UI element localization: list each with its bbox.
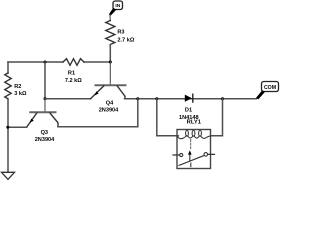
svg-text:2.7 kΩ: 2.7 kΩ bbox=[117, 37, 134, 43]
svg-text:7.2 kΩ: 7.2 kΩ bbox=[65, 78, 82, 84]
resistor R1 bbox=[63, 59, 84, 84]
terminal IN bbox=[109, 1, 123, 16]
relay actuator arrow bbox=[190, 154, 191, 167]
svg-text:Q4: Q4 bbox=[106, 100, 114, 106]
wire R3 to node bbox=[109, 45, 111, 63]
wire left rail bbox=[7, 62, 9, 172]
terminal COM bbox=[256, 82, 279, 100]
node F (relay coil right) bbox=[221, 97, 224, 100]
svg-text:R1: R1 bbox=[68, 70, 75, 76]
svg-text:Q3: Q3 bbox=[41, 130, 48, 136]
wire top rail bbox=[8, 61, 110, 63]
wire node A down bbox=[44, 62, 46, 99]
wire coil right drop bbox=[211, 99, 223, 136]
svg-text:RLY1: RLY1 bbox=[187, 119, 202, 125]
diode D1 bbox=[179, 94, 199, 121]
transistor Q3 bbox=[27, 99, 58, 143]
wire Q3 emitter to rail bbox=[8, 126, 27, 128]
node B (R3 bottom / Q4 base) bbox=[109, 61, 112, 64]
resistor R2 bbox=[5, 73, 27, 99]
relay switch contacts bbox=[180, 153, 183, 156]
svg-text:D1: D1 bbox=[185, 107, 192, 113]
resistor R3 bbox=[106, 21, 135, 45]
svg-text:R3: R3 bbox=[117, 30, 124, 36]
svg-text:2N3904: 2N3904 bbox=[35, 137, 55, 143]
wire IN to R3 bbox=[109, 15, 111, 21]
svg-text:COM: COM bbox=[264, 85, 276, 91]
node D (Q3 collector tie) bbox=[136, 97, 139, 100]
node E (relay coil left) bbox=[155, 97, 158, 100]
node A (R1 left / Q3 base feed) bbox=[44, 61, 47, 64]
wire Q4 collector rail bbox=[125, 98, 257, 100]
relay link (dashed) bbox=[190, 140, 192, 151]
relay switch stubs bbox=[173, 153, 215, 156]
svg-text:R2: R2 bbox=[14, 84, 21, 90]
relay switch blade bbox=[179, 156, 204, 166]
relay RLY1 box bbox=[177, 130, 211, 169]
transistor Q4 bbox=[91, 62, 126, 114]
wire coil left drop bbox=[157, 99, 179, 136]
node C (Q3 base junction) bbox=[44, 97, 47, 100]
svg-text:IN: IN bbox=[115, 3, 120, 9]
node G (left rail / emitter) bbox=[6, 126, 9, 129]
wire Q3 collector to node D bbox=[58, 99, 138, 127]
svg-text:2N3904: 2N3904 bbox=[99, 108, 119, 114]
svg-text:3 kΩ: 3 kΩ bbox=[14, 91, 27, 97]
wire node C to Q4 emitter bbox=[45, 98, 91, 100]
ground bbox=[2, 172, 15, 179]
relay coil bbox=[177, 130, 210, 138]
